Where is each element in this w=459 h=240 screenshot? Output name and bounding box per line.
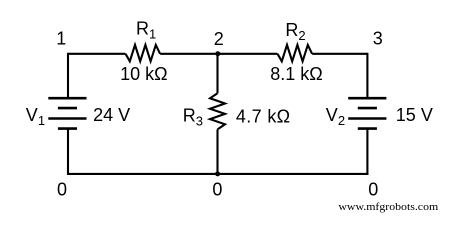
wire middle branch: node 2 down to R3 [216, 53, 218, 93]
battery V1 (plates) [48, 98, 86, 128]
svg-text:24 V: 24 V [93, 105, 130, 125]
battery V2 (plates) [348, 98, 386, 128]
svg-text:R1: R1 [136, 18, 156, 41]
wire top: R1 to node 2 to R2 [160, 53, 277, 55]
wire right branch: V2 down to bottom rail [366, 129, 368, 175]
wire left branch: node 1 down to battery V1 [67, 53, 69, 98]
resistor R2 (zigzag) [278, 45, 313, 61]
svg-text:15 V: 15 V [396, 105, 433, 125]
wire left branch: V1 down to bottom rail [67, 129, 69, 175]
svg-text:0: 0 [212, 180, 222, 200]
svg-text:0: 0 [368, 179, 378, 199]
wire bottom rail: node 0 [67, 173, 369, 175]
wire top: R2 to node 3 [312, 53, 367, 55]
svg-text:R3: R3 [183, 105, 203, 128]
svg-text:8.1 kΩ: 8.1 kΩ [270, 64, 322, 84]
svg-text:4.7 kΩ: 4.7 kΩ [236, 107, 291, 127]
svg-text:10 kΩ: 10 kΩ [120, 64, 167, 84]
svg-text:V1: V1 [26, 105, 45, 128]
svg-text:2: 2 [214, 29, 224, 49]
wire middle branch: R3 down to bottom rail [216, 129, 218, 175]
junction dot: node 2 top [215, 51, 220, 56]
svg-text:3: 3 [373, 29, 383, 49]
wire top: node 1 to R1 [68, 53, 126, 55]
svg-text:R2: R2 [285, 20, 305, 43]
wire right branch: node 3 down to battery V2 [366, 53, 368, 98]
svg-text:V2: V2 [326, 105, 345, 128]
svg-text:www.mfgrobots.com: www.mfgrobots.com [338, 201, 438, 213]
junction dot: node 2 bottom [215, 171, 220, 176]
resistor R1 (zigzag) [126, 45, 161, 61]
svg-text:1: 1 [56, 29, 66, 49]
resistor R3 (vertical zigzag) [210, 93, 225, 129]
svg-text:0: 0 [57, 180, 67, 200]
